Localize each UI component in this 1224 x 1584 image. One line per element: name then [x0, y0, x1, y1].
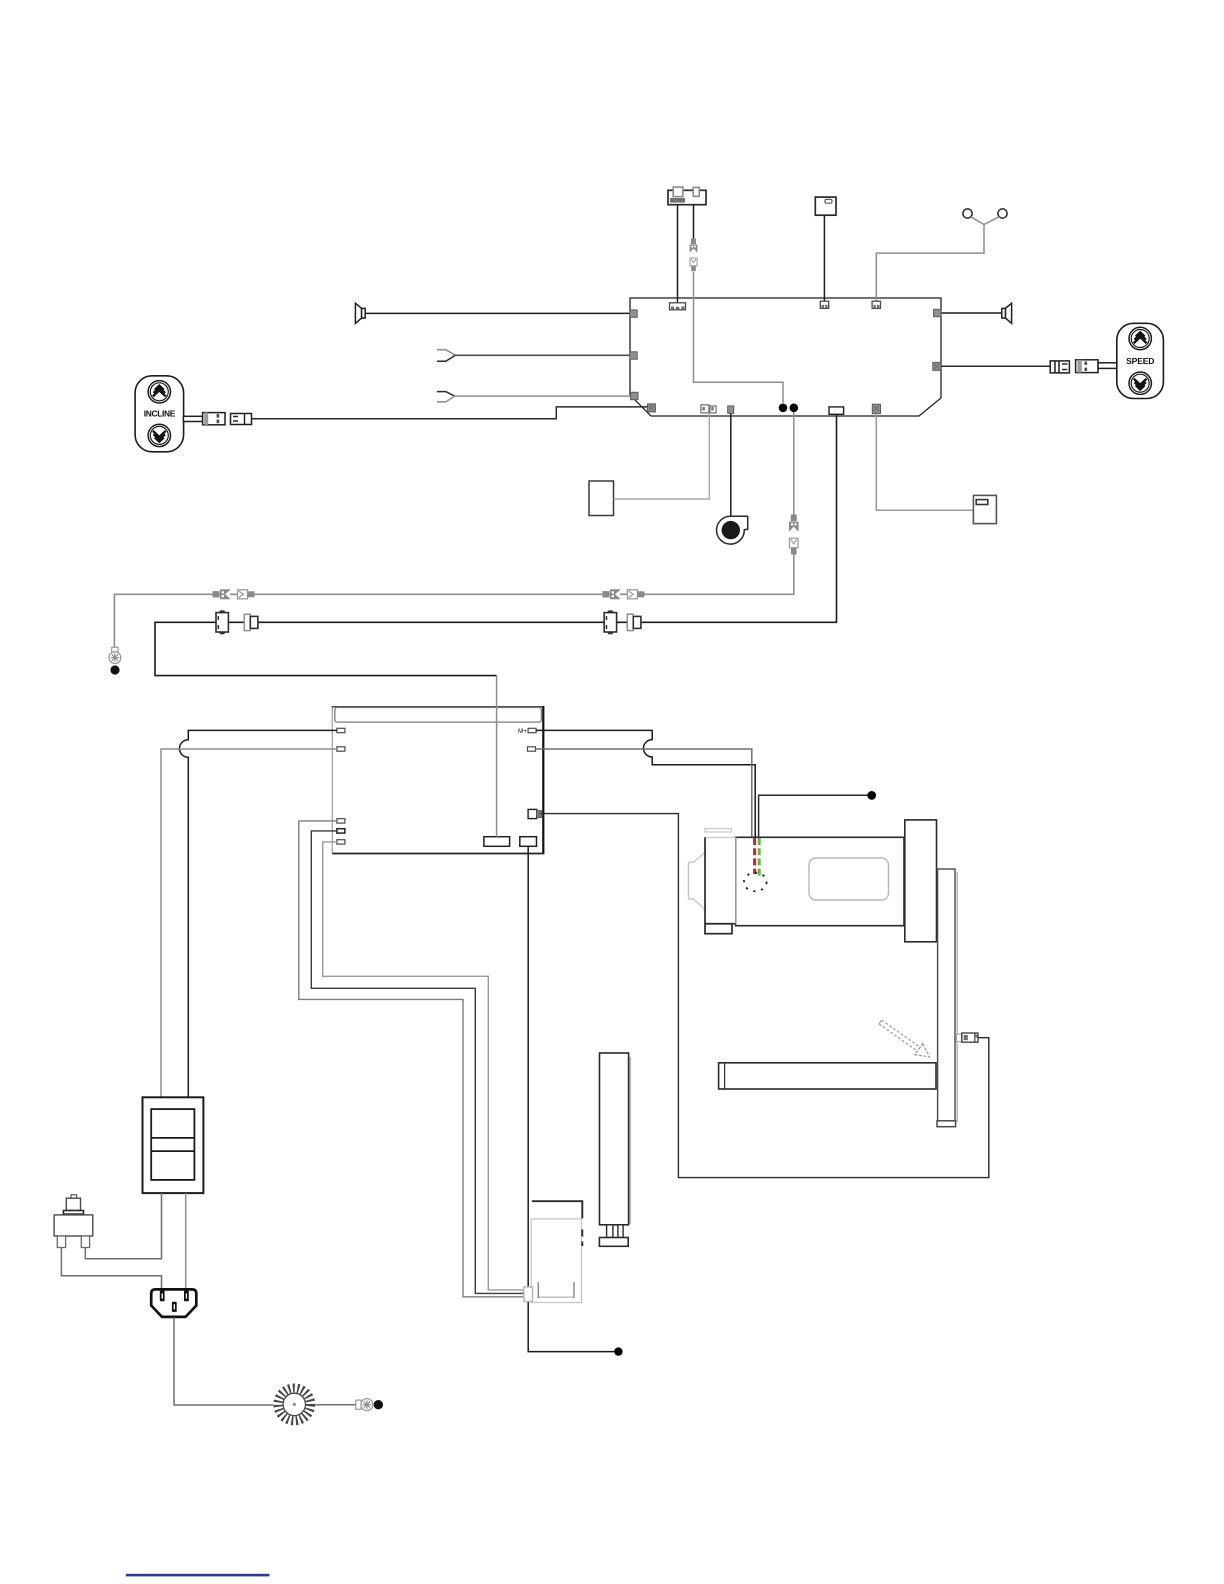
wire fork 2 (console cable) [437, 392, 455, 402]
controller left terminal 3 [337, 819, 345, 823]
incline switch pod [135, 376, 184, 452]
controller right terminal M+ [528, 728, 536, 732]
motor front foot [705, 924, 732, 934]
wire: controller left 4 to incline motor plug [311, 831, 524, 1294]
ring terminal (gray wire) [109, 647, 121, 663]
console board PCB [630, 298, 941, 416]
wire: choke to ring terminal [316, 1404, 358, 1406]
controller right terminal 2 [528, 747, 536, 751]
wire: console pair connector down-left to white box [614, 413, 710, 499]
console right edge connector 1 [934, 309, 941, 316]
incline motor legs [607, 1225, 624, 1238]
console left edge connector 2 [630, 352, 637, 359]
drive motor body [736, 837, 905, 925]
small box below console (right) [973, 495, 996, 523]
spade connector pair on gray wire (right) [602, 589, 644, 599]
wire: audio jack to console [823, 215, 825, 301]
wire: left speaker to console [366, 312, 630, 314]
motor rear bracket [905, 820, 937, 942]
wire: safety key gray lead into console to node dot 1 [694, 272, 784, 403]
incline connector B [231, 414, 252, 425]
hand pulse sensor left [963, 209, 972, 218]
motor green lead (dashed) [758, 838, 761, 877]
svg-text:M+: M+ [518, 728, 527, 735]
wire: controller right 2 to motor (gray) [536, 749, 752, 837]
wire: controller left 3 to incline motor plug [299, 821, 524, 1297]
wire: console to speed switch [941, 365, 1050, 367]
svg-text:INCLINE: INCLINE [144, 409, 176, 419]
controller left terminal 5 [337, 840, 345, 844]
motor label plate [809, 858, 889, 900]
barrel connector pair on black wire (left) [216, 610, 258, 634]
incline motor plug [524, 1287, 533, 1302]
ground stud dot (bottom) [614, 1347, 622, 1355]
motor front bracket [705, 837, 736, 923]
ground stud dot (motor) [867, 791, 876, 800]
controller relay 2 [520, 837, 537, 847]
motor front bracket top bar [705, 829, 732, 832]
wire: node dot 2 down to inline connectors [793, 412, 795, 515]
connector on console top edge (audio) [820, 301, 828, 308]
incline motor foot [599, 1238, 628, 1247]
audio jack box [815, 197, 836, 215]
wire: controller left 1 to power switch (with hop) [180, 730, 337, 1097]
motor brush circle (dashed) [744, 873, 767, 892]
console right edge connector 2 [933, 362, 941, 370]
controller left terminal 1 [337, 728, 345, 732]
right speaker [1002, 303, 1012, 323]
wire: M+ controller to motor (with hop) [536, 730, 755, 837]
long black harness wire console to controller [155, 414, 837, 675]
console bottom connector pair (to relay box) [701, 405, 716, 413]
wire: console to blower [730, 414, 732, 517]
small white box below console (left) [589, 481, 614, 516]
svg-text:SPEED: SPEED [1126, 356, 1154, 366]
power inlet C14 [151, 1289, 196, 1317]
incline switch cable stub [183, 416, 202, 421]
incline connector A [203, 413, 225, 425]
wire: motor ground to stud [759, 795, 868, 837]
console left edge connector 1 [630, 310, 637, 317]
wire: safety key pin 1 to console [677, 205, 679, 303]
wire: console to right speaker [941, 312, 1002, 314]
connector on console top edge (hand pulse) [872, 301, 880, 308]
circuit breaker [54, 1195, 93, 1248]
wire: relay 2 to ground dot [528, 846, 614, 1351]
safety key switch assembly [668, 187, 706, 205]
wire: controller right 3 to speed sensor [541, 814, 989, 1178]
speed connector C [1076, 360, 1098, 373]
blue footer rule [126, 1574, 270, 1577]
power rocker switch [143, 1097, 204, 1193]
wire: fork 2 to console [454, 395, 631, 397]
ring terminal (earth) [356, 1399, 373, 1411]
long gray harness wire to ground terminal [114, 554, 793, 648]
ground stud dot (left) [110, 665, 119, 674]
motor pulley [689, 853, 706, 910]
node dot 2 (console bottom) [790, 404, 799, 413]
console slant edge connector (incline) [647, 404, 655, 412]
wire: harness into relay 1 [496, 676, 498, 837]
hand pulse sensor right [998, 209, 1007, 218]
wire: incline switch to console slant connector [252, 407, 649, 419]
node dot 1 (console bottom) [779, 404, 788, 413]
wire: controller left 5 to incline motor plug [323, 842, 524, 1290]
ferrite choke ring [278, 1388, 310, 1420]
front roller [719, 1063, 936, 1089]
wire: breaker to inlet line [61, 1248, 161, 1289]
barrel connector pair on black wire (right) [604, 610, 641, 634]
controller right terminal 3 (sensor) [528, 809, 542, 818]
ground stud dot (earth) [374, 1400, 383, 1409]
wire fork 1 (console cable) [437, 350, 456, 362]
motor controller board [332, 706, 545, 854]
wire: inlet earth to choke [174, 1318, 274, 1406]
incline motor body [600, 1053, 631, 1225]
connector on console top edge (safety key) [670, 303, 686, 310]
inline connector pair (harness gray wire) [789, 515, 799, 555]
wire: fork 1 to console [455, 354, 630, 356]
console bottom connector (right box) [872, 404, 880, 413]
motor red lead (dashed) [753, 838, 756, 874]
inline connector pair (safety key wire) [690, 239, 698, 272]
controller left terminal 4 [337, 829, 345, 833]
console bottom connector rect (main harness) [829, 407, 844, 414]
controller relay 1 [484, 837, 510, 847]
controller left terminal 2 [337, 747, 345, 751]
wire: console right box drop [876, 414, 973, 511]
console left edge connector 3 [631, 392, 638, 399]
speed switch cable stub [1098, 363, 1117, 369]
speed connector D [1050, 361, 1069, 373]
drive belt [937, 869, 957, 1127]
dashed arrow to belt [876, 1016, 933, 1062]
incline gear box (light) [531, 1201, 582, 1302]
wire: switch bottom-right to inlet [185, 1193, 187, 1288]
wire: controller left 2 to power switch (gray) [161, 749, 337, 1097]
wire: safety key pin 2 [693, 205, 695, 239]
speed sensor [957, 1033, 979, 1042]
blower / buzzer [717, 516, 748, 544]
speed switch pod [1117, 323, 1164, 398]
left speaker [355, 303, 365, 323]
wire: hand pulse leads to console [876, 217, 984, 302]
spade connector pair on gray wire (left) [213, 589, 255, 599]
wire: switch bottom-left to breaker [85, 1193, 161, 1259]
console bottom connector (blower) [728, 406, 734, 413]
